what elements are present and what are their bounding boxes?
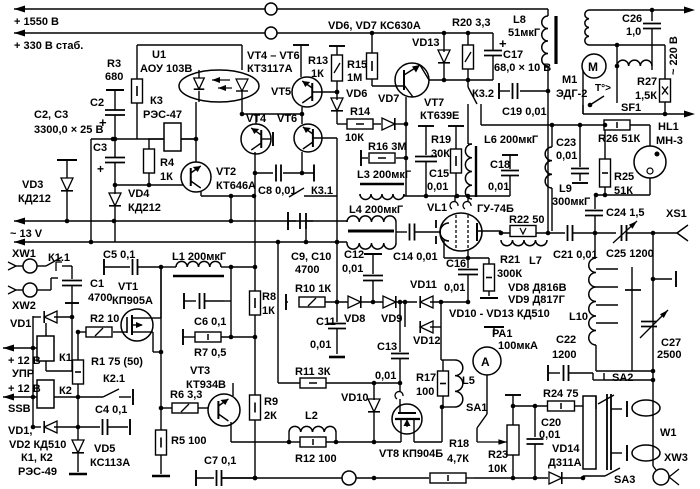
transistor VT5 xyxy=(292,77,322,107)
svg-text:C5 0,1: C5 0,1 xyxy=(103,249,135,261)
connector on bus xyxy=(342,471,356,485)
svg-text:VD4: VD4 xyxy=(128,188,150,200)
svg-text:C2, C3: C2, C3 xyxy=(34,109,68,121)
svg-text:1,0: 1,0 xyxy=(626,26,641,38)
T2 right side xyxy=(611,408,622,410)
svg-text:R19: R19 xyxy=(431,134,451,146)
svg-text:R21: R21 xyxy=(500,254,520,266)
transistor VT2 xyxy=(181,162,211,192)
wire VT8 source xyxy=(374,441,401,443)
wire base bus x337 xyxy=(336,138,338,302)
svg-text:~ 13 V: ~ 13 V xyxy=(10,228,43,240)
wire K1 left bus xyxy=(32,316,34,348)
svg-text:C16: C16 xyxy=(446,258,466,270)
svg-text:R1 75 (50): R1 75 (50) xyxy=(91,356,143,368)
wire +12 ssb xyxy=(3,394,14,401)
wire VT7 emitter rail y80 xyxy=(429,79,493,81)
svg-text:C26: C26 xyxy=(622,13,642,25)
diode VD2 xyxy=(33,426,41,428)
transistor VT8 xyxy=(392,404,422,434)
svg-text:МН-3: МН-3 xyxy=(656,135,683,147)
wire anode feed xyxy=(547,91,549,231)
svg-text:VD12: VD12 xyxy=(413,335,441,347)
svg-text:C15: C15 xyxy=(429,168,449,180)
svg-text:VT1: VT1 xyxy=(118,281,138,293)
svg-text:К2: К2 xyxy=(59,385,72,397)
svg-text:L2: L2 xyxy=(305,410,318,422)
svg-text:300мкГ: 300мкГ xyxy=(552,196,591,208)
svg-text:R10 1К: R10 1К xyxy=(295,283,331,295)
wire VT3 emitter xyxy=(230,422,232,442)
transformer T1 secondary xyxy=(617,60,652,66)
svg-text:К3.1: К3.1 xyxy=(311,185,333,197)
svg-text:0,01: 0,01 xyxy=(488,181,509,193)
svg-text:РЭС-47: РЭС-47 xyxy=(143,109,182,121)
svg-text:VD11: VD11 xyxy=(410,279,437,291)
svg-text:VL1: VL1 xyxy=(427,202,447,214)
svg-text:10К: 10К xyxy=(345,132,364,144)
connector on 330V rail xyxy=(265,27,277,39)
wire VT6 base xyxy=(313,137,337,139)
wire K3.2 out xyxy=(480,104,482,125)
svg-text:R14: R14 xyxy=(350,106,371,118)
wire 220V top xyxy=(589,9,684,11)
svg-text:VD6, VD7 КС630А: VD6, VD7 КС630А xyxy=(328,20,421,32)
wire VT1 drain xyxy=(146,317,161,319)
svg-text:C9, C10: C9, C10 xyxy=(291,251,331,263)
svg-text:C23: C23 xyxy=(556,137,576,149)
wire R3 top xyxy=(136,45,138,79)
svg-text:КС113А: КС113А xyxy=(90,457,130,469)
wire x278 down xyxy=(277,242,279,383)
svg-text:УПР: УПР xyxy=(12,368,34,380)
svg-text:R27: R27 xyxy=(637,76,657,88)
wire xs1 column xyxy=(652,233,654,371)
wire R4 xyxy=(148,139,150,149)
svg-text:C7 0,1: C7 0,1 xyxy=(204,455,236,467)
relay K2 xyxy=(37,380,54,408)
svg-text:VT4 – VT6: VT4 – VT6 xyxy=(247,50,300,62)
wire VT5 emitter xyxy=(301,107,303,114)
svg-text:4,7К: 4,7К xyxy=(447,453,469,465)
wire VT2 emitter xyxy=(195,139,197,162)
svg-text:U1: U1 xyxy=(152,49,166,61)
wire L4 bottom xyxy=(346,242,348,243)
svg-text:XS1: XS1 xyxy=(666,208,687,220)
svg-text:SA1: SA1 xyxy=(466,402,487,414)
svg-text:R6 3,3: R6 3,3 xyxy=(170,389,202,401)
svg-text:R13: R13 xyxy=(308,55,328,67)
svg-text:C6 0,1: C6 0,1 xyxy=(194,316,226,328)
svg-text:1М: 1М xyxy=(347,72,362,84)
wire T1 bottom xyxy=(589,44,665,46)
wire left bus x91 xyxy=(90,139,92,242)
wire +12 upr xyxy=(3,345,14,352)
svg-text:VD7: VD7 xyxy=(378,93,399,105)
svg-text:R3: R3 xyxy=(107,58,121,70)
wire collector bus y114 xyxy=(255,114,257,124)
svg-text:L10: L10 xyxy=(569,311,588,323)
svg-text:АОУ 103В: АОУ 103В xyxy=(140,63,192,75)
svg-text:10К: 10К xyxy=(488,463,507,475)
svg-text:+: + xyxy=(97,162,104,176)
wire vd14 row xyxy=(474,477,513,479)
wire M1 xyxy=(582,70,584,114)
wire y139 xyxy=(91,138,196,140)
terminal bar R23 top xyxy=(505,394,521,396)
svg-text:1,5К: 1,5К xyxy=(635,90,657,102)
svg-text:W1: W1 xyxy=(660,427,677,439)
svg-text:VD1,: VD1, xyxy=(8,425,32,437)
svg-text:C20: C20 xyxy=(541,417,561,429)
svg-text:R20 3,3: R20 3,3 xyxy=(452,17,491,29)
wire 220V bottom xyxy=(583,113,684,115)
wire lamp bottom xyxy=(649,178,651,195)
relay K1 xyxy=(37,336,54,361)
svg-text:R22 50: R22 50 xyxy=(509,214,544,226)
svg-text:30К: 30К xyxy=(431,148,450,160)
svg-text:SA3: SA3 xyxy=(614,474,635,486)
svg-text:0,01: 0,01 xyxy=(310,339,331,351)
svg-text:4700: 4700 xyxy=(88,292,112,304)
svg-text:VD8: VD8 xyxy=(344,313,365,325)
svg-text:КП905А: КП905А xyxy=(112,295,153,307)
svg-text:C1: C1 xyxy=(90,278,104,290)
wire y185 xyxy=(115,184,196,186)
svg-text:C19 0,01: C19 0,01 xyxy=(502,106,547,118)
svg-text:L6 200мкГ: L6 200мкГ xyxy=(484,134,539,146)
svg-text:C24 1,5: C24 1,5 xyxy=(606,207,645,219)
svg-text:+ 1550 В: + 1550 В xyxy=(14,16,59,28)
svg-text:VD1: VD1 xyxy=(10,318,31,330)
wire ctl row y406 xyxy=(513,405,548,407)
wire VT1 gate xyxy=(113,331,127,333)
svg-text:VT3: VT3 xyxy=(190,365,210,377)
svg-text:0,01: 0,01 xyxy=(556,150,577,162)
svg-text:VD8 Д816В: VD8 Д816В xyxy=(508,282,567,294)
svg-text:0,01: 0,01 xyxy=(375,370,396,382)
svg-text:R23: R23 xyxy=(488,449,508,461)
motor M1 xyxy=(582,54,606,78)
wire R14 row xyxy=(337,123,347,125)
svg-text:Д311А: Д311А xyxy=(548,457,582,469)
svg-text:0,01: 0,01 xyxy=(444,282,465,294)
svg-text:0,01: 0,01 xyxy=(427,181,448,193)
svg-text:XW3: XW3 xyxy=(664,452,688,464)
svg-text:L7: L7 xyxy=(529,255,542,267)
svg-text:C12: C12 xyxy=(344,249,364,261)
svg-text:М: М xyxy=(588,60,598,74)
svg-text:2К: 2К xyxy=(264,410,277,422)
wire sa3 up xyxy=(595,396,597,409)
wire K3 xyxy=(148,138,164,140)
svg-text:1К: 1К xyxy=(311,68,324,80)
svg-text:КД212: КД212 xyxy=(18,193,51,205)
svg-text:3300,0 × 25 В: 3300,0 × 25 В xyxy=(34,124,103,136)
svg-text:C3: C3 xyxy=(93,142,107,154)
wire R1 bus down xyxy=(77,397,79,427)
wire L4 top xyxy=(346,221,348,222)
svg-text:L4 200мкГ: L4 200мкГ xyxy=(349,204,404,216)
wire bottom bus xyxy=(222,477,429,479)
wire VT5 base xyxy=(312,91,337,93)
svg-text:R2 10: R2 10 xyxy=(90,313,119,325)
svg-text:R8: R8 xyxy=(262,291,276,303)
svg-text:VD5: VD5 xyxy=(94,443,115,455)
svg-text:SA2: SA2 xyxy=(612,372,633,384)
wire XW2 xyxy=(37,289,51,291)
svg-text:R11 3К: R11 3К xyxy=(295,366,331,378)
svg-text:VT6: VT6 xyxy=(277,113,297,125)
wire VT7 collector-out xyxy=(405,97,407,124)
svg-text:L8: L8 xyxy=(513,14,526,26)
svg-text:КД212: КД212 xyxy=(128,202,161,214)
wire VT3 collector xyxy=(232,383,234,396)
svg-text:0,01: 0,01 xyxy=(342,263,363,275)
wire R3 bottom xyxy=(136,103,138,139)
svg-text:+ 12 В: + 12 В xyxy=(8,383,41,395)
wire 13V rail B xyxy=(14,239,25,246)
svg-text:HL1: HL1 xyxy=(658,121,679,133)
svg-text:РА1: РА1 xyxy=(492,328,512,340)
svg-text:КТ639Е: КТ639Е xyxy=(420,110,459,122)
svg-text:РЭС-49: РЭС-49 xyxy=(18,466,57,478)
svg-text:VD9 Д817Г: VD9 Д817Г xyxy=(508,294,566,306)
svg-text:R24 75: R24 75 xyxy=(543,388,578,400)
svg-text:VT8 КП904Б: VT8 КП904Б xyxy=(379,448,443,460)
stub cap right xyxy=(653,278,672,280)
svg-text:+ 12 В: + 12 В xyxy=(8,355,41,367)
tube grid pins xyxy=(454,196,456,202)
svg-text:R17: R17 xyxy=(416,372,436,384)
svg-text:VD9: VD9 xyxy=(381,313,402,325)
svg-text:VD2 КД510: VD2 КД510 xyxy=(9,439,66,451)
connector on 1550V rail xyxy=(265,3,277,15)
transistor VT7 xyxy=(395,63,429,97)
svg-text:SF1: SF1 xyxy=(621,102,641,114)
svg-text:А: А xyxy=(481,355,490,369)
wire anode output xyxy=(501,232,565,234)
svg-text:VD14: VD14 xyxy=(552,443,580,455)
svg-text:К2.1: К2.1 xyxy=(103,373,125,385)
wire VT7 base xyxy=(372,85,404,87)
svg-text:XW1: XW1 xyxy=(12,248,36,260)
wire 13V rail A xyxy=(14,218,25,225)
svg-text:VT7: VT7 xyxy=(424,97,444,109)
wire SA1 arrow to R23 xyxy=(477,441,507,443)
svg-text:+ 330 В стаб.: + 330 В стаб. xyxy=(14,40,83,52)
svg-text:R25: R25 xyxy=(614,171,634,183)
wire VT1 source xyxy=(146,331,153,333)
svg-text:4700: 4700 xyxy=(295,264,319,276)
wire screen supply y125 xyxy=(481,124,605,126)
wire PA1 down xyxy=(486,375,488,414)
switch SF1 xyxy=(590,96,604,105)
svg-text:VD13: VD13 xyxy=(412,37,440,49)
svg-text:~ 220 В: ~ 220 В xyxy=(668,36,680,75)
svg-text:C27: C27 xyxy=(661,337,681,349)
wire K1 pins xyxy=(45,323,47,336)
svg-text:Т°>: Т°> xyxy=(595,83,611,94)
svg-text:680: 680 xyxy=(105,71,123,83)
wire VT6 emitter xyxy=(301,152,303,173)
svg-text:R7 0,5: R7 0,5 xyxy=(194,347,226,359)
wire tube cathode down xyxy=(443,240,445,258)
svg-text:1К: 1К xyxy=(262,305,275,317)
wire tube anode xyxy=(477,230,501,232)
svg-text:VD10 - VD13 КД510: VD10 - VD13 КД510 xyxy=(449,308,550,320)
wire C2 to C3 xyxy=(114,115,116,157)
wire C13 node xyxy=(399,302,401,312)
svg-text:SSB: SSB xyxy=(8,403,31,415)
svg-text:1200: 1200 xyxy=(552,349,576,361)
svg-text:300К: 300К xyxy=(497,268,522,280)
svg-text:КТ3117А: КТ3117А xyxy=(247,63,293,75)
svg-text:К3: К3 xyxy=(150,95,163,107)
svg-text:К1, К2: К1, К2 xyxy=(21,452,53,464)
resistor R4 xyxy=(144,149,155,173)
svg-text:C11: C11 xyxy=(316,316,336,328)
transformer T1 primary xyxy=(585,10,589,45)
svg-text:2500: 2500 xyxy=(657,349,681,361)
svg-text:VT2: VT2 xyxy=(216,166,236,178)
wire U1 pins xyxy=(198,70,200,71)
svg-text:C4 0,1: C4 0,1 xyxy=(95,404,127,416)
svg-text:КТ646А: КТ646А xyxy=(216,180,256,192)
svg-text:C2: C2 xyxy=(90,97,104,109)
svg-text:R15: R15 xyxy=(347,59,367,71)
wire VT5 collector xyxy=(293,44,309,46)
wire k1k2 bus xyxy=(32,348,34,427)
wire L1 out xyxy=(231,266,255,268)
diode VD7a xyxy=(382,118,395,130)
wire +330V rail xyxy=(14,30,25,37)
wire VT8 drain xyxy=(414,441,442,443)
svg-text:L9: L9 xyxy=(559,183,572,195)
transformer T2 xyxy=(583,396,596,469)
svg-text:К1: К1 xyxy=(59,352,72,364)
wire VT4 base cap xyxy=(261,138,271,140)
wire C3 bottom xyxy=(114,163,116,185)
svg-text:C13: C13 xyxy=(377,341,397,353)
wire screen row y196 xyxy=(404,195,510,197)
svg-text:51мкГ: 51мкГ xyxy=(508,27,541,39)
svg-text:VT5: VT5 xyxy=(271,86,291,98)
svg-text:100мкА: 100мкА xyxy=(498,340,538,352)
svg-text:C14 0,01: C14 0,01 xyxy=(393,251,438,263)
wire VT2 collector xyxy=(200,191,202,196)
svg-text:К3.2: К3.2 xyxy=(472,88,494,100)
svg-text:+: + xyxy=(499,36,507,51)
svg-text:L3 200мкГ: L3 200мкГ xyxy=(357,169,412,181)
svg-text:R18: R18 xyxy=(449,438,469,450)
svg-text:VD6: VD6 xyxy=(346,88,367,100)
tube heater terminals xyxy=(435,220,437,228)
wire VT4 emitter xyxy=(254,152,256,291)
wire x161 down xyxy=(160,267,162,408)
svg-text:XW2: XW2 xyxy=(12,300,36,312)
svg-text:C25 1200: C25 1200 xyxy=(606,248,654,260)
wire +1550V rail xyxy=(14,6,25,13)
svg-text:C22: C22 xyxy=(556,334,576,346)
svg-text:R12 100: R12 100 xyxy=(295,453,337,465)
svg-text:R4: R4 xyxy=(160,157,175,169)
svg-text:R16 3М: R16 3М xyxy=(368,141,407,153)
svg-text:М1: М1 xyxy=(562,74,577,86)
svg-text:1К: 1К xyxy=(160,171,173,183)
svg-text:L5: L5 xyxy=(462,375,475,387)
svg-text:R9: R9 xyxy=(264,396,278,408)
wire VD chain xyxy=(430,301,468,303)
svg-text:VD10: VD10 xyxy=(341,392,369,404)
wire gate VT8 xyxy=(399,383,401,392)
svg-text:C18: C18 xyxy=(490,159,510,171)
svg-text:100: 100 xyxy=(416,386,434,398)
svg-text:VD3: VD3 xyxy=(22,179,43,191)
svg-text:R5 100: R5 100 xyxy=(171,435,206,447)
